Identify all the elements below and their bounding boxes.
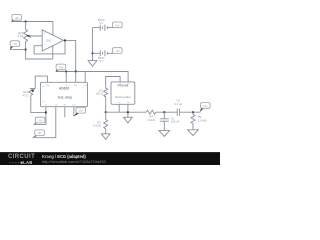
wire feedback loop [34, 40, 65, 54]
wire AD620 bottom pin 8 stub [73, 107, 75, 117]
pin labels PS2506 [118, 83, 130, 104]
wire AD620 top pin 3 [75, 72, 77, 83]
capacitor C1 [160, 112, 169, 130]
footer bar [0, 152, 220, 166]
svg-text:Ref: Ref [74, 85, 78, 87]
wire pot bottom to -9V net [26, 50, 53, 60]
svg-text:Inst. Amp: Inst. Amp [58, 96, 72, 100]
battery bus wire [92, 28, 94, 61]
svg-text:Ref: Ref [59, 65, 63, 69]
wire reference net [56, 72, 128, 82]
svg-text:+9V: +9V [37, 131, 42, 135]
flag Ref mid [56, 64, 66, 72]
svg-text:1.0 MΩ: 1.0 MΩ [198, 118, 207, 122]
ground below C1 [159, 131, 170, 137]
svg-text:+In: +In [42, 86, 45, 88]
svg-text:3.3 kΩ: 3.3 kΩ [93, 124, 101, 128]
capacitor C2 plates [177, 109, 179, 116]
svg-text:Out: Out [203, 104, 207, 108]
potentiometer R20 body [24, 22, 28, 50]
ground below R3 [188, 130, 199, 136]
battery BAT2 [93, 25, 113, 31]
IC U2 PS2506 box [111, 82, 135, 104]
svg-text:-Vs: -Vs [44, 104, 47, 106]
svg-text:100 Ω: 100 Ω [95, 92, 103, 96]
resistor R3 [191, 112, 195, 130]
svg-text:Out: Out [79, 109, 83, 113]
svg-text:OA1: OA1 [46, 38, 52, 42]
svg-text:−9V: −9V [13, 42, 18, 46]
wire AD620 top pin 2 [65, 72, 67, 83]
wire flag to pot bottom [10, 49, 25, 51]
op-amp OA1 [42, 30, 63, 51]
battery BAT1 [93, 50, 113, 56]
node junction C1 branch [163, 111, 165, 113]
wire PS2506 bottom pin 2a [118, 104, 120, 112]
wire op-amp V- pin [52, 46, 54, 59]
potentiometer R20 wiper arrow [29, 36, 43, 38]
svg-text:+9V: +9V [14, 16, 19, 20]
flag Out right [200, 103, 210, 113]
svg-text:−9V: −9V [38, 119, 43, 123]
node junction LA wire [25, 48, 27, 50]
IC U1 AD620 box [41, 82, 88, 106]
svg-text:9 V: 9 V [99, 21, 103, 25]
wire bottom net [106, 111, 147, 113]
flag -9V AD620 pin6 [33, 130, 45, 138]
ground below battery bus [88, 61, 97, 67]
wire net +9V top-left horizontal [11, 21, 53, 23]
wire AD620 top pin 4 [84, 72, 86, 83]
node junction at pot top [25, 20, 27, 22]
wire AD620 bottom pin 6 [33, 107, 56, 138]
node junction R1/R2 [105, 111, 107, 113]
wire AD620 bottom pin 5 [34, 107, 46, 125]
potentiometer R21 gain [29, 88, 46, 112]
flag +9V AD620 pin5 [34, 117, 45, 124]
wire op-amp V+ pin [52, 22, 54, 36]
svg-text:10 kΩ: 10 kΩ [147, 118, 154, 122]
svg-text:Out: Out [84, 84, 88, 87]
svg-text:Optocoupler: Optocoupler [115, 95, 131, 99]
node junction BAT1 [91, 52, 93, 54]
svg-text:Out: Out [72, 103, 76, 106]
flag Out AD620 pin7 [74, 107, 86, 116]
pin labels AD620 [42, 84, 87, 106]
node junction R3 branch [192, 111, 194, 113]
wire AD620 bottom pin 7 [64, 107, 66, 118]
svg-text:AD620: AD620 [59, 87, 69, 91]
node output junction [64, 39, 66, 41]
svg-text:+Vs: +Vs [64, 85, 68, 87]
resistor R1 [104, 84, 108, 112]
flag +9V battery BAT2 [112, 22, 122, 28]
wire C2 to flag [180, 111, 201, 113]
svg-text:-Rg: -Rg [46, 85, 49, 87]
wire PS2506 bottom pin 2b [127, 104, 129, 117]
node junction ref net / op-amp out [75, 70, 77, 72]
svg-text:−9V: −9V [115, 49, 120, 53]
svg-text:100 nF: 100 nF [171, 120, 180, 124]
wire to C2 [164, 111, 177, 113]
svg-text:−: − [43, 43, 45, 47]
resistor R4 [146, 110, 164, 114]
ground below PS2506 [124, 117, 133, 123]
flag -9V left [10, 41, 20, 50]
potentiometer R21 wiper arrow [33, 88, 35, 90]
node junction pot loop / pin 5 [45, 111, 47, 113]
wire R1 top to PS2506 pin 1a [106, 77, 120, 85]
svg-text:+Vs: +Vs [54, 104, 58, 106]
svg-text:+: + [43, 31, 45, 35]
svg-text:1 kΩ: 1 kΩ [17, 34, 23, 38]
flag +9V top-left [11, 15, 21, 23]
resistor R2 [104, 112, 108, 134]
svg-text:47 Ω: 47 Ω [22, 93, 28, 97]
wire op-amp output [64, 40, 76, 71]
flag -9V battery BAT1 [112, 48, 122, 54]
wire gain pot wiper to AD620 pin -Rg [35, 76, 47, 88]
node junction ground drop [127, 111, 129, 113]
svg-text:3.3 µF: 3.3 µF [174, 102, 182, 106]
svg-text:+9V: +9V [115, 23, 120, 27]
svg-text:9 V: 9 V [99, 59, 103, 63]
ground below R2 [101, 134, 110, 140]
node junction ref net / AD620 pin [65, 70, 67, 72]
svg-text:-In: -In [42, 101, 44, 103]
